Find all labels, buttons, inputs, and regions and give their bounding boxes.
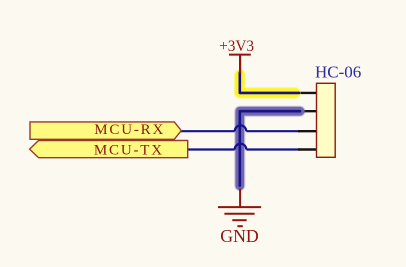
- svg-text:MCU-TX: MCU-TX: [94, 142, 164, 158]
- ground bar 3: [232, 219, 246, 221]
- ground bar 2: [224, 213, 254, 215]
- pin 3 of HC-06: [298, 130, 317, 132]
- svg-text:GND: GND: [220, 226, 259, 246]
- svg-text:+3V3: +3V3: [219, 38, 254, 55]
- wire MCU-TX net (right segment): [246, 148, 300, 150]
- ground bar 1: [218, 206, 261, 208]
- wire MCU-RX net (right segment): [246, 130, 300, 132]
- wire GND net highlighted (purple halo): [240, 111, 300, 185]
- pin 1 of HC-06: [298, 92, 317, 94]
- component HC-06 body: [317, 83, 336, 157]
- svg-text:HC-06: HC-06: [315, 63, 361, 82]
- power symbol +3V3 stem: [239, 55, 241, 74]
- ground bar 4: [237, 225, 242, 227]
- svg-text:MCU-RX: MCU-RX: [94, 122, 165, 138]
- wire MCU-TX net (left segment): [188, 148, 235, 150]
- wire hop MCU-TX over GND net: [235, 144, 247, 150]
- wire MCU-RX net (left segment): [181, 130, 235, 132]
- pin 4 of HC-06: [298, 148, 317, 150]
- wire +3V3 net highlighted (yellow halo): [240, 73, 299, 93]
- port MCU-RX: [30, 122, 181, 139]
- wire hop MCU-RX over GND net: [235, 125, 247, 131]
- ground stem: [239, 189, 241, 207]
- power symbol +3V3 bar: [229, 54, 251, 56]
- port MCU-TX: [30, 141, 188, 158]
- pin 2 of HC-06: [298, 110, 317, 112]
